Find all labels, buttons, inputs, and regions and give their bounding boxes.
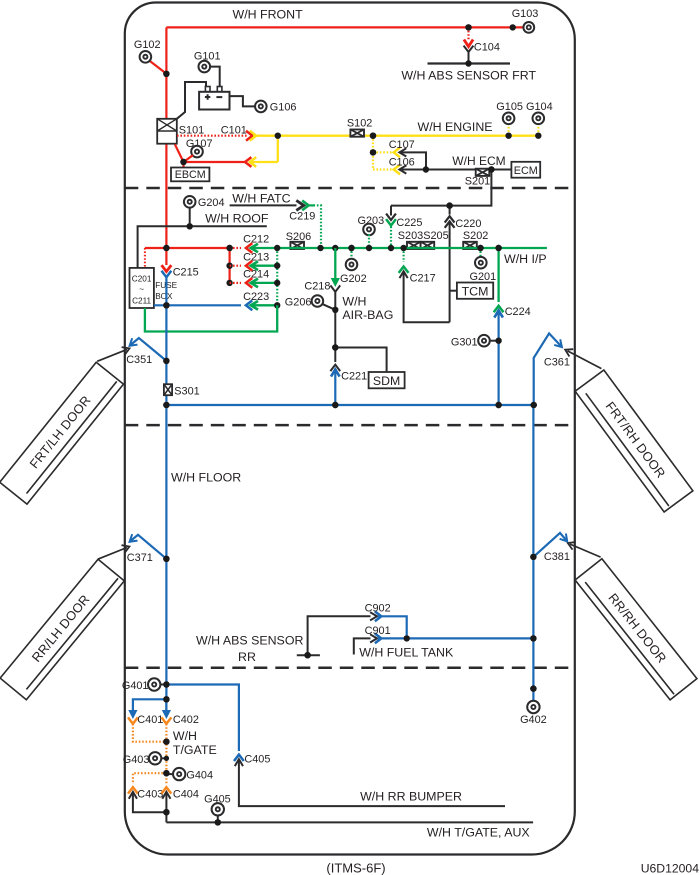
node: G201 tap on W/H I/P: [477, 245, 483, 251]
section divider dashed line 2 (IP/floor): [125, 424, 575, 427]
ground G204: [184, 196, 196, 208]
svg-text:C405: C405: [244, 753, 270, 765]
RR/LH door symbol: [0, 559, 124, 699]
node: blue riser joins C223: [163, 302, 169, 308]
green return loop to fuse box: [145, 305, 277, 331]
svg-text:W/H FRONT: W/H FRONT: [233, 8, 304, 22]
svg-text:G106: G106: [270, 102, 297, 114]
W/H FRONT red trunk wire (top horizontal): [166, 26, 523, 28]
C405 connector arrow (blue over black): [234, 755, 244, 761]
ground G103: [523, 22, 534, 33]
EBCM feed red wire lower row: [184, 161, 246, 163]
W/H T/GATE orange wire (dotted): [165, 724, 167, 784]
ground G102: [140, 51, 152, 63]
node: SDM branch: [332, 344, 338, 350]
FRT/LH door symbol: [0, 362, 123, 504]
battery terminal right: [217, 87, 222, 93]
node: green drop C223: [274, 302, 280, 308]
node overlay: C381 tap: [530, 554, 536, 560]
node: G202 tap on W/H I/P: [348, 245, 354, 251]
ground G206: [312, 295, 324, 307]
C361 wire (blue): [534, 333, 561, 405]
C371 wire (blue): [131, 535, 167, 559]
node: G104 tap (end of W/H ENGINE): [535, 133, 541, 139]
fuse box C201~C211: [130, 268, 154, 308]
node: C371 tap: [163, 556, 169, 562]
splice S205: [421, 242, 435, 249]
ground G402: [527, 701, 539, 713]
node overlay: G102 tap: [163, 71, 169, 77]
G105 yellow stub (dotted): [508, 124, 510, 136]
svg-text:C403: C403: [137, 788, 163, 800]
C107 connector arrow (yellow/black): [394, 148, 400, 158]
section divider dashed line 3 (floor/rear): [125, 667, 575, 670]
node overlay: ECM drop: [488, 166, 494, 172]
node overlay: G404 row: [163, 770, 169, 776]
C213 connector arrow (red into green): [246, 261, 252, 271]
battery - symbol: [216, 96, 222, 98]
wire battery to S101: [177, 82, 206, 119]
W/H FATC wire: [230, 204, 297, 206]
C224 blue wire down: [498, 310, 500, 405]
C218 green wire: [334, 248, 336, 278]
module EBCM: [171, 168, 209, 182]
node: C220 tap on ECM wire: [446, 202, 452, 208]
node: C225 tap on W/H I/P: [388, 245, 394, 251]
C901 black stub wire: [354, 638, 371, 654]
C401 connector arrow (blue into orange): [128, 710, 137, 719]
C401 orange wire (dotted): [133, 724, 167, 742]
svg-text:C212: C212: [243, 234, 269, 246]
wire G101 to battery + terminal: [209, 67, 219, 88]
C902 blue wire: [378, 616, 407, 638]
svg-text:C402: C402: [173, 714, 199, 726]
node: C213/C214 red drop: [226, 245, 232, 251]
node: green drop C214: [274, 280, 280, 286]
C223 green wire: [251, 304, 277, 306]
C107 black wire to W/H ECM: [399, 152, 426, 169]
G301 stub wire: [489, 340, 499, 342]
node: C213 branch: [226, 263, 232, 269]
C101 red wire (dotted): [177, 135, 247, 137]
node: C224 joins floor wire: [495, 402, 501, 408]
splice S301: [164, 384, 172, 395]
blue trunk right side down: [532, 405, 534, 702]
C901 connector arrow (black into blue): [370, 634, 377, 642]
svg-text:S206: S206: [286, 231, 311, 243]
svg-text:C214: C214: [243, 269, 269, 281]
node: C214 branch: [226, 280, 232, 286]
node: G203 tap on W/H I/P: [366, 245, 372, 251]
node overlay: C351 tap: [163, 358, 169, 364]
C221 black wire: [334, 348, 336, 363]
ground G203: [363, 224, 375, 236]
node overlay: C220 tap: [446, 202, 452, 208]
node: C351 tap: [163, 358, 169, 364]
node: G105 tap: [505, 133, 511, 139]
wire battery to G106: [230, 96, 256, 106]
red dotted wire to fuse box: [144, 248, 146, 268]
svg-text:C220: C220: [455, 218, 481, 230]
C902 connector arrow (black into blue): [370, 612, 377, 620]
svg-text:G103: G103: [512, 8, 539, 20]
node: ABS RR bar: [304, 652, 310, 658]
svg-text:G204: G204: [198, 197, 225, 209]
svg-text:G404: G404: [186, 770, 213, 782]
svg-text:S201: S201: [465, 176, 490, 188]
node: EBCM junction: [180, 159, 186, 165]
svg-text:C902: C902: [365, 602, 391, 614]
W/H FUEL TANK blue wire: [378, 637, 534, 639]
node overlay: C223 riser tap: [163, 302, 169, 308]
C361 door arrow line: [568, 351, 602, 369]
car body outline: [125, 3, 575, 855]
ground G106: [255, 101, 267, 113]
battery + symbol: [205, 94, 210, 99]
W/H FATC arrow into C219: [296, 200, 304, 210]
svg-text:W/H ABS SENSOR FRT: W/H ABS SENSOR FRT: [401, 68, 536, 82]
C224 green wire: [497, 248, 499, 302]
svg-text:C404: C404: [173, 788, 199, 800]
ground G104: [533, 113, 545, 125]
W/H ABS SENSOR FRT stub wire: [468, 52, 470, 64]
node: C403 joins C404 wire: [163, 809, 169, 815]
C219 green wire (dotted): [309, 204, 314, 206]
C381 door arrow line: [570, 544, 601, 557]
svg-text:C219: C219: [289, 210, 315, 222]
svg-text:(ITMS-6F): (ITMS-6F): [326, 861, 385, 875]
RR/RH door symbol: [575, 559, 697, 700]
green distribution drop (dotted): [276, 248, 278, 305]
svg-text:G403: G403: [123, 754, 150, 766]
svg-text:W/H T/GATE, AUX: W/H T/GATE, AUX: [427, 826, 530, 840]
node overlay: C224 floor tap: [495, 402, 501, 408]
black wire C220 down to TCM loop: [449, 221, 451, 322]
node overlay: C401 branch: [163, 696, 169, 702]
svg-text:W/H FUEL TANK: W/H FUEL TANK: [359, 646, 454, 660]
C401 blue wire: [133, 699, 167, 710]
node overlay: C221 floor tap: [332, 402, 338, 408]
red drop wire for C213/C214: [229, 248, 231, 283]
ground G405: [212, 803, 224, 815]
node: yellow riser tap on W/H ENGINE: [275, 133, 281, 139]
svg-text:W/H ROOF: W/H ROOF: [205, 211, 269, 225]
node: floor wire right corner: [531, 402, 537, 408]
svg-text:G105: G105: [496, 101, 523, 113]
section divider dashed line 1 (front/IP): [125, 187, 575, 190]
W/H ROOF harness wire: [138, 226, 267, 268]
black loop wire to C217: [404, 272, 450, 323]
C104 connector arrow (red into black): [464, 40, 473, 47]
node: ECM drop wire: [488, 166, 494, 172]
EBCM connector stub: [182, 162, 184, 168]
C217 connector arrow (green over black): [399, 267, 409, 273]
svg-text:C224: C224: [505, 306, 531, 318]
svg-text:G201: G201: [470, 271, 497, 283]
svg-text:G401: G401: [122, 680, 149, 692]
node: C218 tap on W/H I/P: [332, 245, 338, 251]
svg-text:G301: G301: [451, 336, 478, 348]
node overlay: C224 tap: [495, 245, 501, 251]
C106 connector arrow (yellow/black): [394, 165, 400, 175]
node: C217 tap on W/H I/P: [400, 245, 406, 251]
G202 green stub (dotted): [350, 248, 352, 260]
C402 connector arrow (blue into orange): [162, 710, 171, 719]
svg-text:S202: S202: [463, 230, 488, 242]
W/H I/P green trunk wire: [250, 247, 547, 249]
C213 red stub (dotted): [230, 265, 241, 267]
node: G103 tap on W/H FRONT: [510, 24, 516, 30]
TCM stub: [450, 290, 457, 292]
C221 blue wire: [334, 369, 336, 405]
C371 door arrow line: [98, 548, 127, 560]
G403 stub: [161, 757, 167, 759]
C404 black wire: [165, 792, 167, 823]
svg-text:C107: C107: [389, 139, 415, 151]
C215 connector arrow (red into blue): [162, 265, 172, 271]
node overlay: G201 tap: [477, 245, 483, 251]
svg-text:C401: C401: [137, 714, 163, 726]
C212 connector arrow (red into green): [246, 243, 252, 253]
node overlay: orange junction: [163, 739, 169, 745]
G203 green stub (dotted): [368, 234, 370, 248]
C214 green wire: [251, 282, 277, 284]
svg-text:S101: S101: [179, 124, 204, 136]
node overlay: G405 tap: [215, 819, 221, 825]
G102 ground wire (red): [149, 60, 167, 74]
svg-text:C101: C101: [221, 124, 247, 136]
node overlay: C403 join: [163, 809, 169, 815]
splice S203: [407, 242, 421, 249]
node overlay: S301 lower tap: [163, 402, 169, 408]
svg-text:T/GATE: T/GATE: [173, 743, 217, 757]
C214 red stub (dotted): [230, 282, 241, 284]
node: C902 joins fuel tank wire: [404, 635, 410, 641]
node: G102 tap on red riser: [163, 71, 169, 77]
ground G403: [149, 752, 161, 764]
svg-text:TCM: TCM: [462, 285, 489, 299]
C101 connector arrow (red into yellow): [246, 131, 252, 141]
svg-text:W/H RR BUMPER: W/H RR BUMPER: [360, 790, 462, 804]
svg-text:BOX: BOX: [155, 292, 173, 301]
ground G105: [503, 113, 515, 125]
yellow return wire lower row: [252, 161, 278, 163]
node: green drop top: [274, 245, 280, 251]
W/H ABS SENSOR FRT harness bar: [428, 62, 511, 64]
node overlay: C213 drop: [226, 245, 232, 251]
node: C107 branch: [370, 149, 376, 155]
svg-text:W/H: W/H: [342, 295, 366, 309]
splice S206: [290, 242, 304, 249]
svg-text:SDM: SDM: [373, 374, 400, 388]
svg-text:C351: C351: [126, 354, 152, 366]
svg-text:EBCM: EBCM: [175, 169, 206, 181]
node: red riser joins C212 row: [163, 245, 169, 251]
node: C104 tap on W/H FRONT: [465, 24, 471, 30]
svg-text:C221: C221: [341, 370, 367, 382]
svg-text:C225: C225: [396, 217, 422, 229]
svg-text:S203S205: S203S205: [398, 230, 449, 242]
svg-text:C215: C215: [173, 266, 199, 278]
C215 red wire: [165, 248, 167, 265]
C214 connector arrow (red into green): [246, 278, 252, 288]
ground G301: [478, 335, 490, 347]
svg-text:C361: C361: [544, 356, 570, 368]
node: orange junction: [163, 739, 169, 745]
C224 connector arrow (green over blue): [494, 306, 504, 312]
ground G101: [199, 61, 211, 73]
blue wire to C405: [166, 685, 239, 752]
G204 stub wire: [189, 207, 191, 227]
svg-text:W/H: W/H: [173, 729, 197, 743]
red wire S101 to EBCM node: [175, 144, 184, 162]
svg-text:G206: G206: [285, 297, 312, 309]
C223 blue wire from fuse box: [154, 304, 241, 306]
W/H ABS SENSOR RR wire: [308, 616, 371, 655]
yellow drop wire to C107/C106 (dotted): [372, 136, 374, 170]
C225 green stub (dotted): [390, 227, 392, 249]
FRT/RH door symbol: [575, 370, 693, 512]
svg-text:C223: C223: [243, 291, 269, 303]
C218 connector arrow (green into black): [331, 278, 340, 287]
C225 connector arrow (black into green): [386, 214, 396, 220]
svg-text:S301: S301: [174, 385, 199, 397]
svg-text:S102: S102: [347, 117, 372, 129]
wire G107 to EBCM node (red): [184, 155, 193, 162]
node overlay: C212 red riser: [163, 245, 169, 251]
node overlay: C371 tap: [163, 556, 169, 562]
node: C107 joins W/H ECM: [423, 166, 429, 172]
node overlay: floor right corner: [531, 402, 537, 408]
ground G107: [191, 146, 203, 158]
C104 red branch wire (dotted): [467, 27, 469, 39]
node: G405 tap: [215, 819, 221, 825]
ground G202: [346, 259, 358, 271]
node: C401 branch: [163, 696, 169, 702]
node: fuel tank wire joins: [530, 635, 536, 641]
W/H AIR-BAG black wire: [334, 292, 336, 348]
C351 door arrow line: [97, 349, 127, 361]
node overlay: EBCM junction: [180, 159, 186, 165]
svg-text:C218: C218: [304, 280, 330, 292]
splice S201: [476, 169, 490, 176]
ground G401: [148, 678, 160, 690]
svg-text:W/H ABS SENSOR: W/H ABS SENSOR: [196, 634, 303, 648]
W/H ECM black wire: [399, 169, 511, 171]
G206 wire: [322, 304, 336, 310]
G405 stub: [217, 815, 219, 823]
svg-text:G202: G202: [340, 273, 367, 285]
G201 green stub (dotted): [479, 248, 481, 257]
svg-text:U6D12004: U6D12004: [641, 862, 699, 875]
node: C219 tap on W/H I/P: [317, 245, 323, 251]
node: C381 tap: [530, 554, 536, 560]
node overlay: fuel tank join: [530, 635, 536, 641]
node overlay: G202 tap: [348, 245, 354, 251]
ground G201: [475, 257, 487, 269]
module ECM: [511, 162, 540, 178]
node overlay: ABS RR bar: [304, 652, 310, 658]
node overlay: C104 tap: [465, 24, 471, 30]
svg-text:C901: C901: [365, 625, 391, 637]
C220 connector arrow (black/black): [449, 206, 451, 215]
C225 black wire: [390, 206, 392, 216]
C106 yellow stub (dotted): [373, 168, 393, 170]
node overlay: G403 stub: [164, 756, 169, 761]
splice S102: [350, 130, 364, 137]
splice S202: [463, 242, 477, 249]
red wire to C212: [145, 247, 231, 249]
C223 connector arrow (blue into green): [246, 300, 252, 310]
node overlay: SDM branch: [332, 344, 338, 350]
svg-text:W/H ENGINE: W/H ENGINE: [418, 120, 493, 134]
node overlay: C107 branch: [370, 149, 376, 155]
node: G206 joins air-bag wire: [332, 307, 338, 313]
svg-text:W/H ECM: W/H ECM: [452, 154, 505, 168]
svg-text:G102: G102: [134, 39, 161, 51]
W/H FLOOR blue cross wire: [166, 404, 533, 406]
node: G404 row: [163, 770, 169, 776]
svg-text:RR: RR: [238, 650, 256, 664]
node: G204 on W/H ROOF: [187, 223, 193, 229]
svg-text:C213: C213: [243, 251, 269, 263]
svg-text:W/H I/P: W/H I/P: [504, 252, 547, 266]
ground G404: [173, 768, 185, 780]
svg-text:C217: C217: [410, 272, 436, 284]
C403 black wire: [133, 792, 167, 812]
svg-text:~: ~: [139, 285, 144, 294]
svg-text:C104: C104: [474, 41, 500, 53]
W/H T/GATE AUX black wire: [166, 821, 533, 823]
svg-text:W/H FLOOR: W/H FLOOR: [171, 471, 241, 485]
SDM branch wire: [335, 348, 386, 373]
C403 connector arrow (orange over black): [128, 787, 138, 793]
module TCM: [457, 283, 493, 299]
svg-text:C381: C381: [544, 551, 570, 563]
svg-text:G104: G104: [526, 101, 553, 113]
svg-text:C211: C211: [132, 296, 151, 305]
C213 green wire: [251, 265, 277, 267]
G401 stub: [160, 684, 167, 686]
C217 green stub (dotted): [403, 248, 405, 262]
battery BAT1: [199, 92, 229, 110]
W/H ENGINE yellow trunk wire: [253, 135, 538, 137]
svg-text:AIR-BAG: AIR-BAG: [342, 308, 393, 322]
node: G301 tap: [495, 338, 501, 344]
node overlay: C107/C106 drop: [370, 133, 376, 139]
svg-text:G402: G402: [520, 714, 547, 726]
G404 stub: [166, 773, 173, 775]
C403 orange wire (dotted): [133, 773, 167, 784]
svg-text:C371: C371: [127, 552, 153, 564]
W/H FLOOR blue main riser: [165, 277, 167, 713]
C402 blue wire: [165, 699, 167, 710]
node: C221 joins floor wire: [332, 402, 338, 408]
svg-text:ECM: ECM: [514, 165, 538, 177]
node: S301 lower tap: [163, 402, 169, 408]
C-junction arrow lower row (red/yellow): [245, 157, 251, 167]
node: G402 tap: [530, 685, 536, 691]
module SDM: [369, 372, 405, 388]
node: G401 tap: [163, 681, 169, 687]
node overlay: G401 tap: [163, 681, 169, 687]
red riser wire from W/H FRONT to S101/fusebox: [165, 27, 167, 118]
C351 wire (blue): [131, 338, 167, 361]
G104 yellow stub (dotted): [537, 124, 539, 136]
C381 wire (blue): [533, 533, 566, 557]
black wire ECM drop to IP section: [391, 170, 491, 206]
W/H ABS SENSOR RR harness bar: [297, 654, 320, 656]
